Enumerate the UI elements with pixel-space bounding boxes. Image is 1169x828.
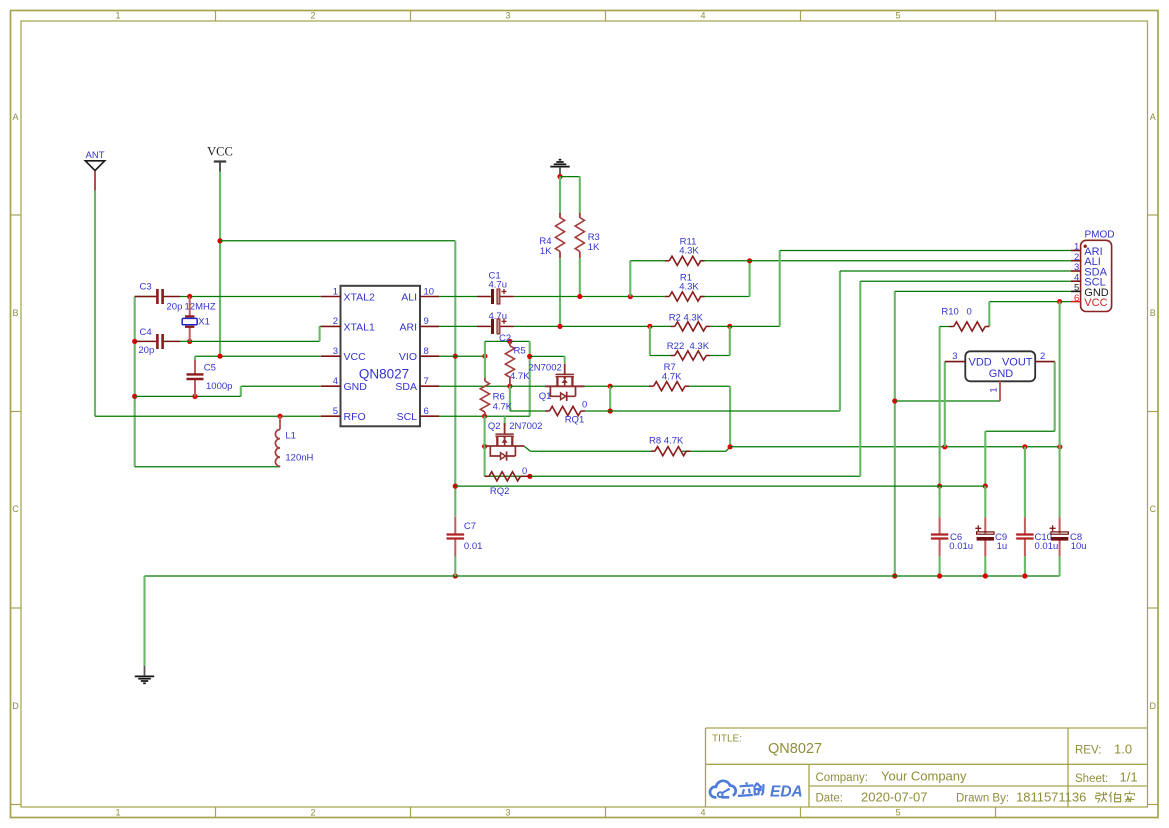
wire VOUT to cap row <box>984 431 986 486</box>
wire R8 step up <box>726 447 730 451</box>
wire C2 to R2 <box>514 325 671 327</box>
svg-text:120nH: 120nH <box>285 453 313 464</box>
wire Q1 right to junction <box>585 385 611 387</box>
IC U1 pin 5 lead <box>321 415 341 417</box>
wire R22 right bracket vertical <box>729 326 731 355</box>
junction Q1 right SDA <box>608 384 613 389</box>
junction RQ1 right <box>608 408 613 413</box>
wire RQ2 row left <box>485 475 530 477</box>
wire to Q1 gate <box>530 355 565 357</box>
wire VOUT down <box>1054 362 1056 432</box>
wire VCC cap row horizontal <box>455 485 985 487</box>
antenna ANT symbol <box>85 161 104 171</box>
svg-text:0.01: 0.01 <box>464 541 483 552</box>
junction C8 branch on VCC row <box>1057 299 1062 304</box>
wire pin7 SDA <box>439 385 510 387</box>
svg-text:6: 6 <box>424 406 429 417</box>
svg-text:20p: 20p <box>138 345 154 356</box>
wire RQ1 right <box>585 410 610 412</box>
wire pin10 ALI to C1 <box>439 296 477 298</box>
svg-text:2020-07-07: 2020-07-07 <box>861 790 928 805</box>
junction VDD on rail <box>942 444 947 449</box>
drawn-by chinese name <box>1096 791 1135 802</box>
svg-text:SDA: SDA <box>395 381 417 393</box>
wire R3 top <box>579 177 581 214</box>
wire GND row <box>135 395 241 397</box>
connector P1 pin 4 lead <box>1071 280 1081 282</box>
svg-text:2: 2 <box>333 316 338 327</box>
capacitor C1 <box>477 289 514 304</box>
wire Q1-RQ1 right link <box>609 386 611 411</box>
wire SDA riser vertical <box>839 271 841 411</box>
capacitor C7 <box>447 517 465 557</box>
svg-text:Drawn By:: Drawn By: <box>956 793 1009 805</box>
capacitor C5 <box>187 360 204 396</box>
capacitor C6 <box>931 517 948 556</box>
svg-text:VOUT: VOUT <box>1002 357 1033 369</box>
transistor Q1 2N7002 <box>545 363 585 401</box>
svg-text:4: 4 <box>333 376 338 387</box>
wire step top <box>320 325 321 327</box>
junction VIO bracket <box>482 354 487 359</box>
junction R8 to pullup rail <box>728 444 733 449</box>
regulator U2 pin 2 lead <box>1035 361 1055 363</box>
wire rail down to ground <box>143 576 145 666</box>
junction R4 on ARI row <box>557 324 562 329</box>
wire C6 bottom <box>939 556 941 576</box>
inductor L1 <box>275 416 280 467</box>
wire C3 to pin1 <box>180 296 321 298</box>
wire ground rail <box>145 575 1060 577</box>
svg-text:0: 0 <box>967 307 972 318</box>
wire R8 right <box>682 450 726 452</box>
wire R7 down to pullup rail <box>729 386 731 447</box>
capacitor C9 <box>975 517 994 556</box>
svg-text:9: 9 <box>424 316 429 327</box>
wire R2 right <box>710 325 730 327</box>
wire R3 bottom to ALI row <box>579 258 581 297</box>
wire R7 right <box>689 385 730 387</box>
junction C10 on rail <box>1022 444 1027 449</box>
wire C9 column <box>984 486 986 517</box>
wire SDA to R7 <box>610 385 649 387</box>
svg-text:C5: C5 <box>204 363 216 374</box>
junction C8 on rail <box>1057 444 1062 449</box>
wire bracket left vertical upper <box>484 341 486 378</box>
connector P1 pin 6 lead <box>1071 301 1081 303</box>
wire R22 left bracket vertical <box>649 326 651 355</box>
junction RQ2 right <box>527 474 532 479</box>
IC U1 pin 6 lead <box>420 415 439 417</box>
svg-text:2: 2 <box>310 11 315 21</box>
svg-text:RQ2: RQ2 <box>490 486 510 497</box>
svg-text:4.7K: 4.7K <box>510 371 530 382</box>
svg-text:0.01u: 0.01u <box>1035 541 1059 552</box>
svg-text:D: D <box>1149 701 1156 711</box>
wire Q1 gate drop <box>564 356 566 363</box>
svg-text:4: 4 <box>700 808 705 818</box>
IC U1 pin 8 lead <box>420 355 439 357</box>
wire R10 left down C6 column <box>939 327 941 487</box>
svg-text:1.0: 1.0 <box>1114 742 1132 757</box>
crystal X1 <box>182 297 197 342</box>
wire GND to PMOD pin5 <box>895 290 1071 292</box>
regulator U2 pin 1 lead <box>999 381 1001 401</box>
svg-text:4.7K: 4.7K <box>493 402 513 413</box>
wire R10 left <box>940 326 950 328</box>
ground symbol top <box>550 160 569 175</box>
wire jog to RQ1 left <box>510 410 530 412</box>
IC U1 pin 4 lead <box>321 385 341 387</box>
wire pin4 GND left <box>241 385 321 387</box>
svg-text:4: 4 <box>700 11 705 21</box>
wire ARI to PMOD pin1 <box>780 250 1071 252</box>
junction VCC tap <box>217 238 222 243</box>
wire C3 left <box>135 296 158 298</box>
junction VIO at VCC line <box>453 354 458 359</box>
wire R11 left branch <box>629 261 631 297</box>
svg-text:Q2: Q2 <box>488 421 501 432</box>
regulator U2 pin 3 lead <box>945 361 966 363</box>
IC U1 pin 2 lead <box>321 325 341 327</box>
resistor R5 <box>505 341 514 386</box>
junction ground top <box>557 174 562 179</box>
svg-text:QN8027: QN8027 <box>768 741 822 757</box>
wire R11 right <box>700 260 750 262</box>
wire R22 right bracket horizontal <box>710 355 730 357</box>
svg-text:1K: 1K <box>540 246 552 257</box>
connector P1 pin 3 lead <box>1071 270 1081 272</box>
ground symbol bottom-left <box>135 666 154 683</box>
resistor R22 <box>671 351 711 360</box>
svg-text:VCC: VCC <box>344 351 367 363</box>
wire pin6 SCL <box>439 415 484 417</box>
svg-text:A: A <box>12 112 18 122</box>
wire VOUT elbow horizontal <box>985 430 1054 432</box>
svg-text:D: D <box>12 701 19 711</box>
resistor R1 <box>665 292 705 301</box>
junction C9 top row <box>983 484 988 489</box>
capacitor C3 <box>135 289 180 304</box>
wire ARI row to riser <box>730 325 780 327</box>
resistor R10 <box>950 322 990 331</box>
svg-text:GND: GND <box>344 381 368 393</box>
wire ground to R3 top <box>560 176 580 178</box>
wire VDD pin vertical <box>944 362 946 447</box>
wire R11 left horizontal <box>630 260 665 262</box>
svg-text:C: C <box>1149 504 1156 514</box>
junction R11 branch on ALI row <box>628 294 633 299</box>
svg-text:1: 1 <box>333 286 338 297</box>
svg-text:A: A <box>1150 112 1156 122</box>
svg-text:3: 3 <box>505 808 510 818</box>
junction C6 rail <box>937 573 942 578</box>
wire C8 bottom <box>1059 556 1061 576</box>
svg-text:RQ1: RQ1 <box>565 415 585 426</box>
wire R4 bottom to ARI row <box>559 258 561 326</box>
IC U1 pin 3 lead <box>321 355 341 357</box>
svg-text:ANT: ANT <box>86 150 105 161</box>
svg-text:R10: R10 <box>941 307 958 318</box>
svg-text:Company:: Company: <box>816 772 868 784</box>
svg-text:8: 8 <box>424 346 429 357</box>
IC U1 pin 1 lead <box>321 296 341 298</box>
junction GND row left <box>132 394 137 399</box>
title block frame <box>706 728 1148 807</box>
svg-text:R5: R5 <box>514 346 526 357</box>
junction VCC line at ground rail <box>453 573 458 578</box>
wire R10 right riser <box>988 302 990 327</box>
svg-text:5: 5 <box>895 11 900 21</box>
wire RQ2 to SCL riser <box>530 475 860 477</box>
resistor RQ2 <box>485 472 530 481</box>
svg-text:6: 6 <box>1074 293 1079 304</box>
junction R3 on ALI row <box>577 294 582 299</box>
svg-text:5: 5 <box>895 808 900 818</box>
wire R22 left bracket horizontal <box>650 355 671 357</box>
junction VCC at pin3 row <box>217 354 222 359</box>
wire C6 column <box>939 486 941 517</box>
svg-text:10u: 10u <box>1071 541 1087 552</box>
IC U1 QN8027 body <box>341 286 421 427</box>
svg-text:VIO: VIO <box>399 351 417 363</box>
resistor R8 <box>651 447 691 456</box>
LCEDA logo cloud <box>710 781 736 798</box>
junction R5 bottom on SDA <box>507 384 512 389</box>
svg-text:0.01u: 0.01u <box>949 541 973 552</box>
LCEDA logo text 立创 <box>738 782 764 796</box>
junction C4-X1 bottom <box>187 339 192 344</box>
svg-text:2: 2 <box>1040 351 1045 362</box>
svg-text:1811571136: 1811571136 <box>1016 790 1086 805</box>
svg-text:EDA: EDA <box>770 784 803 801</box>
svg-text:3: 3 <box>952 351 957 362</box>
wire SCL to PMOD pin4 <box>860 280 1071 282</box>
wire ground to R4 <box>559 177 561 214</box>
wire pin4 step down <box>240 386 242 396</box>
svg-text:C4: C4 <box>140 327 152 338</box>
svg-text:C: C <box>12 504 19 514</box>
svg-text:VCC: VCC <box>1084 297 1107 309</box>
svg-text:3: 3 <box>505 11 510 21</box>
wire SDA to Q1 left <box>510 385 545 387</box>
junction R22 left on ARI row <box>647 324 652 329</box>
wire Q2 to R8 <box>530 450 650 452</box>
wire C10 bottom <box>1024 556 1026 576</box>
svg-text:PMOD: PMOD <box>1085 230 1115 241</box>
capacitor C4 <box>135 334 180 349</box>
connector P1 pin 2 lead <box>1071 260 1081 262</box>
wire C5 top to pin3 <box>195 355 321 357</box>
wire Q2 right diagonal <box>524 446 530 451</box>
wire left vertical <box>134 297 136 467</box>
resistor RQ1 <box>545 406 585 415</box>
svg-text:L1: L1 <box>285 431 296 442</box>
power flag VCC symbol <box>214 162 226 172</box>
svg-text:1: 1 <box>989 387 1000 392</box>
wire bracket top horizontal <box>485 340 530 342</box>
svg-text:RFO: RFO <box>344 411 366 423</box>
transistor Q2 2N7002 <box>485 423 525 461</box>
resistor R7 <box>649 382 689 391</box>
wire RQ1 row to SDA riser <box>610 410 840 412</box>
junction GND rail <box>892 573 897 578</box>
regulator U2 body <box>965 351 1035 381</box>
svg-text:R8 4.7K: R8 4.7K <box>649 436 684 447</box>
svg-text:5: 5 <box>333 406 338 417</box>
junction C5 bottom <box>192 394 197 399</box>
wire C4 row to step <box>180 340 320 342</box>
resistor R2 <box>671 322 711 331</box>
svg-text:REV:: REV: <box>1075 745 1101 757</box>
capacitor C10 <box>1016 517 1033 556</box>
wire pin9 ARI to C2 <box>439 325 477 327</box>
wire ANT to RFO vertical <box>94 191 96 416</box>
svg-text:C7: C7 <box>464 521 476 532</box>
junction C6 top row <box>937 484 942 489</box>
wire Q2 gate drop <box>504 416 506 426</box>
wire VCC vertical <box>219 172 221 357</box>
svg-text:QN8027: QN8027 <box>359 367 409 382</box>
svg-text:ALI: ALI <box>401 292 417 304</box>
wire C9 bottom <box>984 556 986 576</box>
wire C7 bottom <box>454 556 456 576</box>
svg-text:2N7002: 2N7002 <box>529 363 562 374</box>
wire SCL riser vertical <box>859 281 861 476</box>
junction C9 rail <box>983 573 988 578</box>
junction L1 top <box>277 414 282 419</box>
junction R6 bottom on SCL <box>482 414 487 419</box>
wire bracket right vertical <box>529 341 531 416</box>
capacitor C2 <box>477 319 514 334</box>
wire SDA to PMOD pin3 <box>840 270 1071 272</box>
svg-text:1u: 1u <box>997 541 1008 552</box>
wire pullup rail VCCP <box>730 446 1060 448</box>
wire ALI to PMOD pin2 <box>750 260 1071 262</box>
svg-text:10: 10 <box>424 286 435 297</box>
resistor R6 <box>480 378 489 416</box>
svg-text:3: 3 <box>333 346 338 357</box>
svg-text:1: 1 <box>115 11 120 21</box>
junction R22 right on ARI row <box>727 324 732 329</box>
svg-text:SCL: SCL <box>397 411 418 423</box>
wire SCL row right <box>485 415 530 417</box>
wire regulator GND horizontal <box>895 400 1000 402</box>
svg-text:Q1: Q1 <box>539 391 552 402</box>
svg-text:0: 0 <box>582 400 587 411</box>
junction C4 left <box>132 339 137 344</box>
svg-text:7: 7 <box>424 376 429 387</box>
IC U1 pin 9 lead <box>420 325 439 327</box>
wire RFO row <box>95 415 321 417</box>
svg-text:B: B <box>1150 308 1156 318</box>
junction Q2 left <box>482 444 487 449</box>
svg-text:TITLE:: TITLE: <box>712 734 742 745</box>
wire C1 to R1 <box>514 296 665 298</box>
resistor R11 <box>665 256 705 265</box>
svg-text:VDD: VDD <box>969 357 992 369</box>
connector P1 PMOD body <box>1081 240 1112 311</box>
wire C8 column upper <box>1059 302 1061 447</box>
svg-text:2: 2 <box>310 808 315 818</box>
connector P1 pin 1 lead <box>1071 250 1081 252</box>
svg-text:GND: GND <box>989 368 1014 380</box>
wire to RQ1 <box>530 410 545 412</box>
svg-text:Sheet:: Sheet: <box>1075 773 1108 785</box>
wire C10 column <box>1024 447 1026 518</box>
junction C10 rail <box>1022 573 1027 578</box>
wire ARI riser vertical <box>779 251 781 327</box>
junction R11-R1 node <box>747 258 752 263</box>
svg-text:X1: X1 <box>198 317 210 328</box>
svg-text:XTAL1: XTAL1 <box>344 321 375 333</box>
wire R5bottom down <box>509 386 511 411</box>
junction regulator GND <box>892 398 897 403</box>
wire pin8 VIO <box>439 355 485 357</box>
wire VCC top horizontal <box>220 240 455 242</box>
svg-text:C3: C3 <box>140 282 152 293</box>
svg-text:1: 1 <box>115 808 120 818</box>
junction R5 top <box>507 339 512 344</box>
wire VCC line down to C7 <box>454 241 456 517</box>
wire R1 right <box>700 296 750 298</box>
svg-text:0: 0 <box>522 466 527 477</box>
antenna pin <box>94 171 96 191</box>
wire VCC PMOD pin6 row <box>989 301 1071 303</box>
wire R6dot down to RQ2 row <box>484 416 486 476</box>
IC U1 pin 10 lead <box>420 296 439 298</box>
svg-text:1K: 1K <box>588 242 600 253</box>
svg-text:4.7K: 4.7K <box>662 372 682 383</box>
connector P1 pin1 marker <box>1084 245 1087 248</box>
svg-text:Date:: Date: <box>816 793 844 805</box>
svg-text:1/1: 1/1 <box>1120 770 1138 785</box>
junction C3-X1 top <box>187 294 192 299</box>
svg-text:ARI: ARI <box>399 321 417 333</box>
wire C8 column lower <box>1059 447 1061 518</box>
wire R1 to R11 junction vertical <box>749 261 751 297</box>
wire PMOD GND vertical <box>894 291 896 576</box>
capacitor C8 <box>1050 517 1069 556</box>
wire C5 top lead upper <box>194 356 196 366</box>
IC U1 pin 7 lead <box>420 385 439 387</box>
junction VCC line at cap row <box>453 484 458 489</box>
svg-text:2N7002: 2N7002 <box>509 421 542 432</box>
svg-text:20p: 20p <box>167 302 183 313</box>
wire step up to pin2 <box>319 326 321 341</box>
connector P1 pin 5 lead <box>1071 290 1081 292</box>
resistor R3 <box>575 213 584 258</box>
svg-text:Your Company: Your Company <box>881 769 967 784</box>
svg-text:XTAL2: XTAL2 <box>344 292 375 304</box>
wire L1 bottom return <box>135 466 280 468</box>
svg-text:VCC: VCC <box>207 145 233 159</box>
svg-text:1000p: 1000p <box>206 381 232 392</box>
svg-text:B: B <box>12 308 18 318</box>
resistor R4 <box>555 213 564 258</box>
junction Q1 gate branch <box>527 354 532 359</box>
